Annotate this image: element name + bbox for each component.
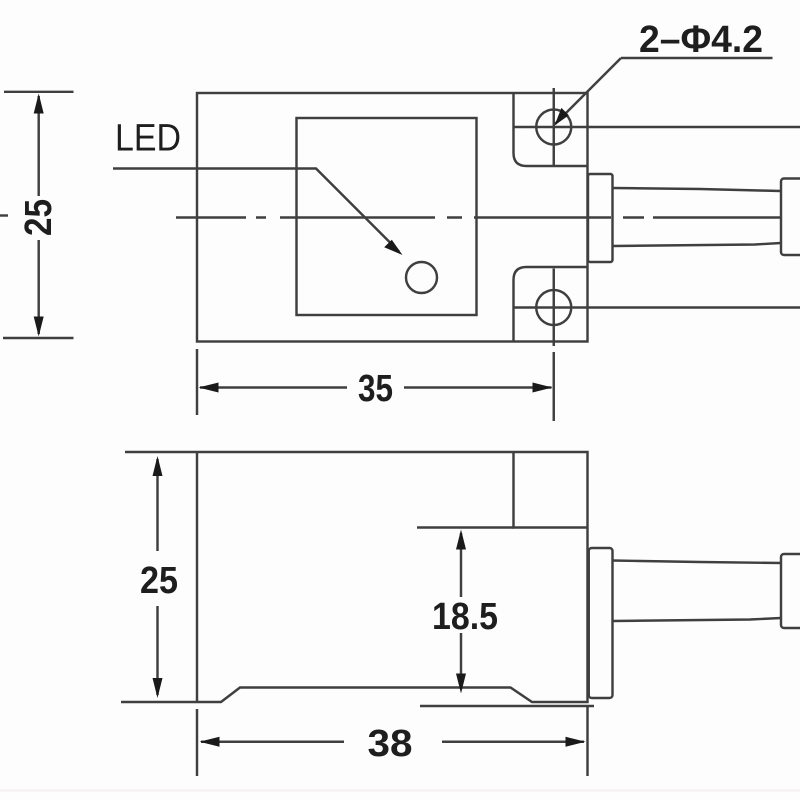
svg-text:25: 25 (140, 560, 178, 602)
dimension 38: left extension line (196, 709, 198, 776)
dimension 25 (top view): arrow down (34, 317, 44, 337)
top view: sensor body outline (197, 93, 588, 342)
dimension 38: line right segment (442, 741, 584, 743)
top view: mounting ear step (upper) (514, 93, 588, 166)
dimension 25 (bottom view): line upper segment (156, 459, 158, 551)
svg-text:2–Φ4.2: 2–Φ4.2 (639, 19, 763, 61)
dimension 18.5: line upper segment (460, 533, 462, 597)
dimension 25 (bottom view): lower tick (121, 701, 196, 703)
dimension 25 (bottom view): arrow up (153, 456, 163, 476)
top view: connector block at right edge (781, 179, 800, 256)
dimension 25 (top view): lower tick (3, 337, 74, 339)
dimension 25 (bottom view): line lower segment (156, 606, 158, 695)
dimension 35: arrow left (199, 383, 219, 393)
dimension 18.5: arrow down (456, 674, 466, 694)
bottom view: top-right notch step (514, 452, 588, 528)
dimension 35: arrow right (533, 383, 553, 393)
top view centerline tick at left margin (0, 214, 8, 216)
dimension 18.5: line lower segment (460, 633, 462, 689)
top view: cable lower edge (613, 243, 782, 246)
dimension 38: arrow left (200, 737, 220, 747)
bottom view: cable lower edge (613, 618, 782, 621)
dimension 35: left extension line (196, 349, 198, 415)
dimension 38: line left segment (201, 741, 344, 743)
dimension 38: right extension line (586, 706, 588, 776)
top view: cable gland (588, 174, 613, 262)
top view: indicator window rectangle (297, 118, 477, 315)
LED indicator circle (406, 262, 437, 293)
bottom view: sensor body outline with sensing-face step (197, 452, 588, 702)
top view centerline (dash-dot) (176, 216, 781, 218)
dimension 25 (bottom view): arrow down (153, 678, 163, 698)
svg-text:38: 38 (368, 723, 413, 765)
dimension 38: arrow right (566, 737, 586, 747)
svg-text:LED: LED (115, 118, 181, 160)
dimension 25 (top view): line lower segment (37, 240, 39, 334)
mounting hole (upper) (536, 110, 571, 145)
svg-text:25: 25 (18, 199, 60, 236)
bottom view: cable upper edge (613, 561, 782, 564)
dimension 35: right extension line (from lower hole center) (553, 352, 555, 421)
dimension 25 (top view): line upper segment (37, 96, 39, 196)
svg-text:18.5: 18.5 (432, 596, 498, 638)
dimension 35: line left segment (200, 386, 347, 388)
2-phi4.2 leader arrowhead (555, 108, 569, 126)
bottom view: connector block at right edge (781, 554, 800, 628)
upper hole crosshair horizontal (extends to image edge) (513, 126, 800, 128)
top view: cable upper edge (613, 188, 782, 191)
dimension 35: line right segment (404, 386, 552, 388)
upper hole crosshair vertical (553, 88, 555, 166)
lower hole crosshair vertical (553, 269, 555, 347)
mounting hole (lower) (536, 290, 571, 325)
dimension 25 (top view): arrow up (34, 94, 44, 114)
dimension 25 (top view): upper tick (4, 91, 74, 93)
dimension 18.5: lower tick (420, 705, 594, 707)
bottom view: cable gland (589, 548, 613, 698)
svg-text:35: 35 (358, 368, 393, 410)
faint photo edge line near bottom (0, 790, 800, 792)
dimension 18.5: arrow up (456, 530, 466, 550)
2-phi4.2 leader underline (621, 57, 773, 59)
top view: mounting ear step (lower) (514, 267, 588, 342)
lower hole crosshair horizontal (extends to image edge) (513, 306, 800, 308)
2-phi4.2 leader diagonal to hole (555, 58, 621, 124)
LED leader line (113, 169, 399, 252)
dimension 25 (bottom view): upper tick (125, 451, 196, 453)
LED leader arrowhead (384, 240, 402, 255)
bottom view: notch tick extension (18.5 upper reference) (417, 526, 514, 528)
